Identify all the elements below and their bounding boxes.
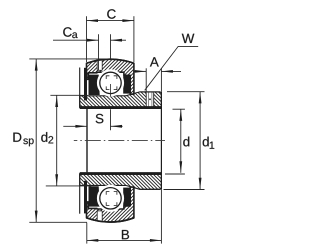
dimension B <box>87 239 162 241</box>
dimension Dsp <box>35 59 37 222</box>
label S <box>96 114 104 123</box>
left seal (bottom) <box>89 186 100 206</box>
ball dashed square (bottom) <box>106 192 117 206</box>
flinger (bottom) <box>84 181 87 214</box>
flinger (top) <box>84 68 87 101</box>
ball dashed square (top) <box>106 76 117 90</box>
label Dsp <box>13 133 21 142</box>
dimension C <box>87 20 134 22</box>
collar right face <box>160 92 162 189</box>
label d2 <box>41 132 47 142</box>
dimension d extension lines <box>173 108 185 110</box>
dimension d1 extension lines <box>167 91 205 93</box>
centerline (axis) <box>74 140 165 142</box>
ball (bottom) <box>98 186 122 210</box>
lubrication hole (top) <box>97 60 102 70</box>
bore line bottom <box>80 172 162 175</box>
flinger edge across bore <box>86 109 88 172</box>
inner ring section (bottom) <box>80 174 162 190</box>
leader W <box>145 46 199 90</box>
label d <box>183 137 189 147</box>
dimension A extension lines <box>145 68 147 92</box>
left seal (top) <box>89 75 100 95</box>
dimension d <box>180 109 182 173</box>
dimension Ca <box>53 39 99 41</box>
dimension Dsp extension lines <box>29 58 113 60</box>
label B <box>122 230 129 239</box>
label d1 <box>203 137 209 147</box>
dimension d2 extension lines <box>50 94 87 96</box>
ball (top) <box>98 71 122 95</box>
dimension B extension lines <box>86 223 88 244</box>
right seal (top) <box>123 75 130 93</box>
outer ring section (top) <box>87 59 134 94</box>
label A <box>150 57 159 66</box>
label Ca <box>63 27 71 36</box>
bore line top <box>80 106 162 109</box>
lubrication hole (bottom) <box>97 211 102 221</box>
outer ring section (bottom) <box>87 187 134 222</box>
right seal (bottom) <box>123 188 130 206</box>
inner ring section (top) <box>80 92 162 108</box>
dimension d1 <box>199 92 201 190</box>
label C <box>107 9 115 18</box>
dimension A <box>135 70 147 72</box>
inner ring left face bottom <box>79 174 81 214</box>
inner ring left face top <box>79 68 81 108</box>
label W <box>182 34 195 43</box>
dimension Ca extension lines <box>98 34 100 70</box>
dimension d2 <box>56 95 58 186</box>
dimension C extension lines <box>86 16 88 62</box>
dimension S <box>63 125 87 127</box>
set screw slot (top) <box>146 93 154 107</box>
